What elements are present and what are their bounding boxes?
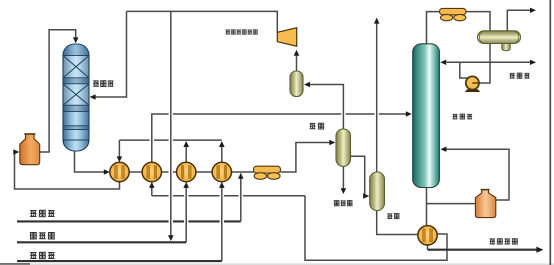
pump P (reflux pump)	[465, 76, 480, 92]
wire: E2-E3 shell connector	[162, 171, 177, 173]
label: 分馏塔 (fractionator)	[453, 114, 473, 119]
wire: HP separator overhead to recycle gas drum	[304, 82, 343, 129]
compressor K (循环氢压缩机)	[277, 28, 296, 46]
wire: E4 to mid air cooler	[232, 171, 254, 173]
wire: reflux into column and naphtha product line	[440, 60, 536, 65]
heat exchanger E2	[142, 162, 161, 181]
wire: HP separator to LP separator	[350, 156, 369, 198]
wire: fractionator bottoms down to E5	[426, 187, 428, 226]
wire: LP separator bottoms to E5	[377, 211, 418, 235]
vessel: reflux drum (horizontal) with boot	[478, 31, 521, 51]
wire: mid air cooler outlet to hot HP separator	[281, 140, 336, 172]
label: 低分 (LP separator)	[387, 214, 399, 219]
wire: raw oil feed line (原料油) to E4	[17, 182, 225, 261]
vessel: hot HP separator 高分	[336, 129, 351, 166]
artifact: faint bottom scan edge	[0, 263, 554, 265]
label: 原料油 (raw oil feed)	[30, 252, 54, 258]
wire: recycle gas drum to compressor	[294, 50, 300, 71]
wire: HP separator bottom sour water outlet	[341, 166, 347, 194]
heat exchanger E4	[212, 162, 231, 181]
air cooler A1 (mid, after E4)	[254, 166, 281, 179]
label: 补充氢 (make-up hydrogen)	[30, 233, 54, 239]
wire: surge tank outlet up and into reactor top	[40, 30, 79, 152]
wire: reflux drum offgas arrow	[507, 8, 536, 31]
tank: feed surge tank (orange jar, bottom-left)	[20, 134, 40, 165]
wire: make-up hydrogen feed line (补充氢) to E3	[17, 182, 189, 242]
heat exchanger E3	[177, 162, 196, 181]
wire: reflux drum bottoms to pump	[479, 43, 490, 83]
wire: reactor bottom effluent to E1	[75, 149, 110, 175]
label: 脱盐水 (desalted water)	[30, 210, 54, 216]
wire: fractionator bottoms branch to reboiler furnace	[427, 203, 476, 205]
heat exchanger E1	[110, 162, 129, 181]
label: 循环氢压缩机 (recycle hydrogen compressor)	[225, 30, 257, 35]
vessel: recycle gas knock-out drum (capsule)	[290, 71, 303, 97]
wire: recycle hydrogen drop line to make-up hydrogen line	[168, 11, 174, 241]
column: fractionator 分馏塔	[413, 44, 440, 188]
frame: right border line	[549, 0, 551, 265]
wire: E3-E4 shell connector	[196, 171, 212, 173]
wire: E2 top to fractionator feed	[152, 111, 412, 162]
wire: E4 top riser into header	[219, 141, 225, 162]
wire: cold feed header above exchangers into E1	[117, 140, 222, 162]
vessel: LP separator 低分	[370, 172, 385, 211]
heat exchanger E5 (product cooler)	[418, 226, 437, 245]
label: 精制柴油 (refined diesel)	[490, 239, 518, 245]
wire: desalted water feed line (脱盐水) riser to effluent line	[17, 173, 244, 222]
wire: E1 bottom to surge tank	[13, 149, 119, 189]
wire: E5 outlet diesel product line (精制柴油)	[428, 245, 544, 253]
wire: E3 top riser into header	[183, 141, 189, 162]
wire: pump discharge riser	[460, 62, 469, 78]
wire: LP separator offgas riser	[374, 18, 380, 172]
label: 酸性水 (sour water)	[334, 201, 352, 206]
air cooler A2 (top, fractionator overhead)	[440, 8, 467, 20]
wire: recycle gas quench line into reactor	[90, 11, 127, 99]
label: 高分 (HP separator)	[310, 123, 324, 129]
reactor R (加氢反应器)	[63, 44, 89, 151]
label: 反应器 (reactor)	[93, 81, 113, 87]
wire: reboiler furnace return to column	[440, 147, 509, 201]
wire: top air cooler outlet down to reflux drum	[466, 12, 490, 31]
label: 粗汽油 (naphtha product)	[510, 73, 530, 78]
furnace: reboiler jar (orange, bottom-right)	[475, 190, 495, 218]
wire: E5 shell outlet loop to E2 bottom	[149, 182, 447, 260]
wire: E1-E2 shell connector	[129, 171, 142, 173]
wire: top recycle header to compressor suction	[127, 11, 278, 32]
wire: fractionator overhead to top air cooler	[427, 12, 440, 44]
